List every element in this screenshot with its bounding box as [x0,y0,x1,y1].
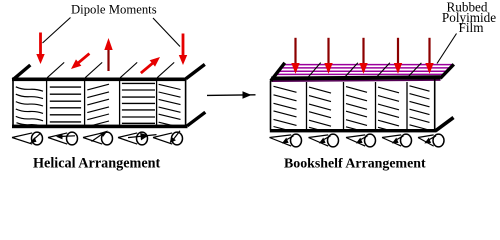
film thin depth line over separator 4 [409,63,422,76]
right cone 3 [346,134,376,147]
red dipole arrow 5 (down) [179,34,187,66]
label: Rubbed Polyimide Film [442,0,496,35]
red rubbing arrow 4 (down) [394,38,402,74]
left box: panel separator 1 [46,81,48,125]
left box panel 3 ascending hatch [87,84,109,127]
right box panel 1 hatch [274,86,297,131]
left cone 5 [153,131,183,145]
right box: thick bottom-right depth edge [436,118,454,131]
film thick left depth edge [271,63,285,81]
left box: panel separator 4 [156,81,158,125]
right box panel 2 hatch [309,87,331,131]
left box: thick top-right depth edge [186,64,205,78]
right box panel 3 hatch [346,87,367,131]
film thin depth line over separator 1 [308,63,321,78]
pointer line right from label to arrow 5 [153,18,180,47]
left box: panel separator 2 [84,81,86,125]
right box panel 5 hatch [410,86,430,130]
left box panel 2 horizontal hatch [50,87,81,122]
red dipole arrow 1 (down) [36,33,44,65]
transition arrow between boxes [207,91,256,99]
svg-text:Helical Arrangement: Helical Arrangement [33,156,161,172]
red dipole arrow 4 (up-right) [138,54,163,77]
red rubbing arrow 3 (down) [359,38,367,74]
red rubbing arrow 5 (down) [425,38,433,74]
red rubbing arrow 2 (down) [324,38,332,74]
left box: bottom bar [12,125,188,129]
left box: thin top depth line over separator 4 [157,62,174,77]
film front black bar [271,77,440,78]
left box: thick bottom-right depth edge [187,112,205,126]
left box panel 4 horizontal hatch [122,83,155,123]
right box: film top face (white base) [271,63,454,81]
left cone 2 [48,132,78,145]
film thin depth line over separator 3 [377,63,390,77]
red dipole arrow 2 (down-left) [68,50,92,72]
film purple under-line [272,80,441,81]
right box: bottom bar [270,129,437,132]
left box: panel separator 3 [119,81,121,125]
left cone 3 [83,131,113,145]
left box: thin top depth line over separator 2 [85,62,102,77]
left box: thin top depth line over separator 1 [47,62,64,77]
film magenta stripe 3 [278,70,447,72]
right cone 2 [309,134,339,147]
red dipole arrow 3 (up, maroon shaft) [104,38,112,71]
right cone 5 [418,134,444,147]
right box panel 4 hatch [378,87,399,131]
pointer line from Film label to film [437,34,457,64]
left box panel 5 descending hatch [159,84,181,127]
right box: right edge [434,79,436,130]
film magenta stripe 2 [281,67,451,69]
left cone 4 [118,132,157,145]
svg-text:Dipole Moments: Dipole Moments [71,3,157,17]
right box: panel separator 1 [306,82,308,129]
left box panel 1 wavy hatch [16,87,43,126]
right box: panel separator 3 [375,82,377,129]
svg-text:Bookshelf Arrangement: Bookshelf Arrangement [284,157,426,172]
left box: top bar [12,78,187,82]
left box: right edge [185,78,187,128]
left box: thin top depth line over separator 3 [120,62,137,77]
right cone 4 [382,134,412,147]
right box: panel separator 4 [406,82,408,129]
film thin depth line over separator 2 [345,63,358,77]
film magenta stripe 1 [283,64,453,66]
svg-text:Film: Film [459,20,485,35]
film magenta stripe 4 [276,73,445,75]
red rubbing arrow 1 (down) [291,38,299,74]
film thick right depth edge [440,64,454,78]
left box: thick top-left depth edge [13,65,31,80]
right box: left edge [270,81,272,130]
left box: left edge [12,78,14,128]
left cone 1 [12,132,43,145]
right box: panel separator 2 [343,82,345,129]
right cone 1 [270,134,302,147]
pointer line left from label to arrow 1 [43,18,71,44]
